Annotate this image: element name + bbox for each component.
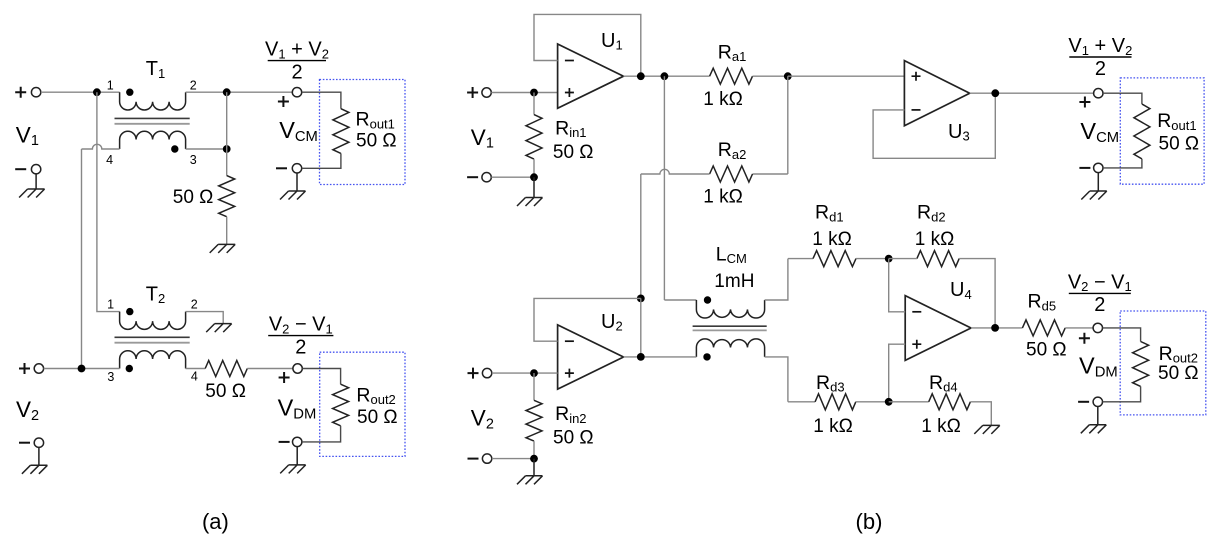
LCM core line 2 [693, 329, 767, 331]
wire U2 output to LCM [624, 356, 697, 358]
wire Ra1 to averaging node [753, 75, 788, 77]
T2 primary winding (pins 1-2) [120, 312, 186, 330]
T1 phase dot pin 1 [126, 89, 133, 96]
minus sign V1 [15, 168, 26, 170]
minus sign V1 (b) [467, 176, 478, 178]
svg-text:2: 2 [1094, 294, 1105, 316]
wire U4 - input [889, 259, 906, 312]
minus sign VCM (b) [1079, 167, 1090, 169]
ground under VCM- (b) [1081, 173, 1107, 200]
U3 feedback wire [873, 93, 995, 158]
wire V1+ to T1 pin 1 [41, 91, 120, 93]
T2 core line 2 [115, 342, 190, 344]
wire vertical V1-node to T2 pin 1 [97, 92, 120, 311]
minus sign VDM [279, 441, 290, 443]
wire U1 branch down to LCM top winding [663, 76, 665, 300]
node: U3 output [991, 89, 999, 97]
wire VDM+ into box [302, 369, 340, 385]
svg-text:50 Ω: 50 Ω [173, 187, 214, 208]
svg-text:50 Ω: 50 Ω [553, 142, 594, 163]
node: U1 output [637, 72, 645, 80]
svg-text:50 Ω: 50 Ω [356, 131, 397, 152]
minus sign V2 (b) [468, 458, 479, 460]
wire Rout2 to VDM- (b) [1103, 386, 1141, 401]
svg-text:1: 1 [107, 78, 114, 92]
node: U2 feedback junction [637, 295, 645, 303]
wire U4 output [971, 327, 1022, 329]
node: U1 output branch to LCM [661, 72, 669, 80]
resistor Rd1 [813, 251, 856, 267]
wire vertical pin2-node to pin3-node [226, 92, 228, 149]
svg-text:V1 + V2: V1 + V2 [1068, 35, 1132, 58]
node: V2- ground junction [530, 455, 538, 463]
U1 plus sign [565, 88, 574, 97]
plus sign VDM [279, 372, 290, 383]
U2 plus sign [565, 369, 574, 378]
op-amp U3 [904, 61, 969, 126]
wire LCM bottom-right lead to Rd3 [765, 357, 788, 402]
V1 source + terminal (b) [467, 87, 478, 98]
wire VCM+ into box [302, 92, 341, 109]
resistor Rd4 [929, 394, 971, 410]
wire junction down to 50 ohm resistor [226, 149, 228, 176]
svg-text:1mH: 1mH [714, 271, 754, 292]
wire Rout1 to VCM- (b) [1103, 159, 1142, 168]
U4 minus sign [912, 311, 921, 313]
svg-text:2: 2 [190, 78, 197, 92]
dashed box Rout2 [320, 352, 405, 456]
svg-text:1 kΩ: 1 kΩ [921, 416, 961, 437]
T1 phase dot pin 3 [171, 145, 178, 152]
ground under V1- [19, 174, 44, 198]
svg-text:(b): (b) [856, 509, 883, 534]
LCM bottom phase dot [703, 353, 710, 360]
node: U4 non-inverting node [885, 398, 893, 406]
ground under V2- [22, 447, 48, 473]
node: V2 junction [78, 365, 86, 373]
ground under VDM- [280, 447, 306, 474]
wire Rd1 left lead [788, 258, 813, 260]
wire V2+ to U2 + input [492, 372, 558, 374]
resistor Rout1 [333, 109, 349, 154]
U1 minus sign [565, 60, 574, 62]
V2 source + terminal [19, 363, 30, 374]
wire vertical T1 pin4 to V2 line [81, 149, 83, 369]
wire T2 pin 2 to ground [186, 312, 224, 324]
plus sign VCM [278, 96, 289, 107]
T1 core line 2 [115, 123, 190, 125]
wire V1+ to U1 + input [491, 92, 557, 94]
svg-text:50 Ω: 50 Ω [205, 381, 246, 402]
svg-text:50 Ω: 50 Ω [1159, 134, 1200, 155]
wire T2 pin 4 to series resistor [186, 368, 206, 370]
wire Rd2 to U4 output [959, 259, 995, 328]
svg-text:V2 − V1: V2 − V1 [269, 314, 333, 337]
VDM + terminal (b) [1093, 323, 1102, 332]
resistor Rin1 [526, 115, 542, 160]
svg-text:50 Ω: 50 Ω [357, 407, 398, 428]
T1 secondary winding (pins 4-3) [120, 131, 186, 149]
node: U2 output [637, 353, 645, 361]
T2 secondary winding (pins 3-4) [120, 351, 186, 369]
wire Ra2 right lead [753, 173, 788, 175]
V2 source - terminal (b) [482, 454, 491, 463]
ground under VDM- (b) [1081, 407, 1107, 434]
resistor Rout1 (b) [1134, 104, 1150, 159]
resistor 50 ohm (shunt) [219, 176, 235, 217]
svg-text:1 kΩ: 1 kΩ [813, 416, 853, 437]
op-amp U1 [558, 44, 624, 108]
LCM bottom winding [696, 339, 764, 357]
VCM - terminal [292, 164, 301, 173]
wire Rin2 to V2- node [533, 441, 535, 459]
resistor Ra2 [710, 166, 753, 182]
svg-text:2: 2 [1095, 58, 1106, 80]
wire Ra2 down to U2 output node [640, 174, 642, 298]
ground under 50 ohm [210, 244, 236, 253]
VCM + terminal (b) [1094, 89, 1103, 98]
svg-text:1 kΩ: 1 kΩ [812, 229, 852, 250]
svg-text:1 kΩ: 1 kΩ [915, 229, 955, 250]
wire Rout1 to VCM- [302, 153, 341, 168]
U2 minus sign [565, 340, 574, 342]
resistor 50 ohm (series) [205, 361, 247, 377]
VDM + terminal [293, 364, 302, 373]
wire U4- node to Rd2 [889, 258, 917, 260]
svg-text:V1 + V2: V1 + V2 [265, 39, 329, 62]
ground under Rin1 [517, 177, 543, 206]
wire U3 output to VCM+ [970, 92, 1094, 94]
wire Rd1 to U4- node [856, 258, 889, 260]
T1 primary winding (pins 1-2) [120, 92, 186, 110]
minus sign VDM (b) [1078, 401, 1089, 403]
resistor Rout2 (b) [1133, 342, 1149, 387]
ground at Rd4 [974, 425, 1000, 434]
node: U4 inverting node [885, 255, 893, 263]
dashed box Rout2 (b) [1120, 311, 1206, 415]
V2 source + terminal (b) [468, 368, 479, 379]
svg-text:50 Ω: 50 Ω [1158, 363, 1199, 384]
wire LCM top-left lead [664, 299, 696, 301]
node: V1- ground junction [530, 173, 538, 181]
wire U2 feedback junction to U2 output [640, 298, 642, 357]
V1 source - terminal [31, 165, 40, 174]
wire series resistor to VDM+ [247, 368, 293, 370]
wire V2- to ground node [492, 458, 534, 460]
wire T1 pin 2 to VCM+ node [186, 91, 293, 93]
U3 minus sign [912, 109, 921, 111]
svg-text:2: 2 [191, 298, 198, 312]
resistor Rd5 [1022, 320, 1065, 336]
wire Ra2 left lead with hop over LCM wire [641, 169, 710, 174]
minus sign VCM [276, 167, 287, 169]
dashed box Rout1 [320, 80, 406, 185]
plus sign VDM (b) [1079, 333, 1090, 344]
node: T1 pin2 / 50ohm junction [223, 88, 231, 96]
op-amp U2 [558, 325, 624, 389]
ground under VCM- [280, 173, 306, 200]
ground under Rin2 [517, 459, 543, 485]
node: V1/T2 junction [93, 88, 101, 96]
op-amp U4 [905, 296, 971, 361]
wire U1 output [624, 75, 710, 77]
wire Rd3 left lead [788, 401, 815, 403]
wire VCM+ into box (b) [1103, 93, 1142, 104]
ground at T2 pin 2 [206, 324, 232, 333]
resistor Rout2 [333, 384, 349, 426]
wire T1 pin 4 with hop over vertical wire [82, 144, 120, 149]
svg-text:50 Ω: 50 Ω [1026, 340, 1067, 361]
U1 feedback wire [534, 14, 641, 76]
wire junction to Rin1 [533, 93, 535, 115]
wire T1 pin 3 to junction [186, 148, 227, 150]
wire V1- to ground node [491, 176, 534, 178]
V1 source + terminal [15, 87, 41, 98]
svg-text:3: 3 [190, 153, 197, 167]
wire Rd3 to U4+ node [856, 401, 889, 403]
U4 plus sign [912, 340, 921, 349]
svg-text:2: 2 [291, 61, 302, 83]
wire Rout2 to VDM- [302, 426, 341, 442]
dashed box Rout1 (b) [1120, 78, 1204, 184]
LCM core line 1 [693, 325, 767, 327]
U2 feedback wire [534, 298, 641, 341]
wire averaging node to U3 + input [788, 75, 905, 77]
T1 core line 1 [115, 117, 190, 119]
svg-text:2: 2 [295, 336, 306, 358]
wire V2+ to T2 pin 3 [44, 368, 120, 370]
resistor Rd3 [815, 394, 856, 410]
svg-text:4: 4 [106, 153, 113, 167]
wire LCM top-right lead to Rd1 [765, 259, 788, 300]
minus sign V2 [19, 442, 30, 444]
LCM top winding [696, 300, 764, 318]
VCM + terminal [292, 88, 301, 97]
svg-text:3: 3 [107, 370, 114, 384]
resistor Rd2 [917, 251, 959, 267]
T2 phase dot pin 3 [126, 365, 133, 372]
node: V1/Rin1 junction [530, 89, 538, 97]
VDM - terminal (b) [1093, 397, 1102, 406]
svg-text:50 Ω: 50 Ω [553, 428, 594, 449]
svg-text:4: 4 [191, 369, 198, 383]
wire Rd4 to ground [970, 402, 991, 426]
V2 source - terminal [34, 438, 43, 447]
VDM - terminal [293, 437, 302, 446]
node: V2/Rin2 junction [530, 369, 538, 377]
T2 core line 1 [115, 336, 190, 338]
wire U4 + input [889, 344, 906, 402]
node: U4 output [991, 324, 999, 332]
svg-text:1: 1 [107, 298, 114, 312]
resistor Rin2 [526, 400, 542, 441]
svg-text:(a): (a) [202, 509, 229, 534]
wire 50 ohm to ground [226, 217, 228, 245]
wire Rd5 to VDM+ [1065, 327, 1093, 329]
T2 phase dot pin 1 [126, 308, 133, 315]
svg-text:1 kΩ: 1 kΩ [703, 187, 743, 208]
V1 source - terminal (b) [482, 173, 491, 182]
node: T1 pin3 junction [223, 145, 231, 153]
wire VDM+ into box (b) [1103, 328, 1141, 342]
U3 plus sign [912, 72, 921, 81]
wire Rin1 to V1- node [533, 159, 535, 177]
resistor Ra1 [710, 68, 753, 84]
svg-text:1 kΩ: 1 kΩ [703, 89, 743, 110]
VCM - terminal (b) [1094, 163, 1103, 172]
LCM top phase dot [704, 296, 711, 303]
node: averaging node [784, 72, 792, 80]
wire averaging node down to Ra2 [787, 76, 789, 174]
svg-text:V2 − V1: V2 − V1 [1068, 271, 1132, 294]
wire U4+ node to Rd4 [889, 401, 929, 403]
wire junction to Rin2 [533, 373, 535, 400]
plus sign VCM (b) [1079, 97, 1090, 108]
